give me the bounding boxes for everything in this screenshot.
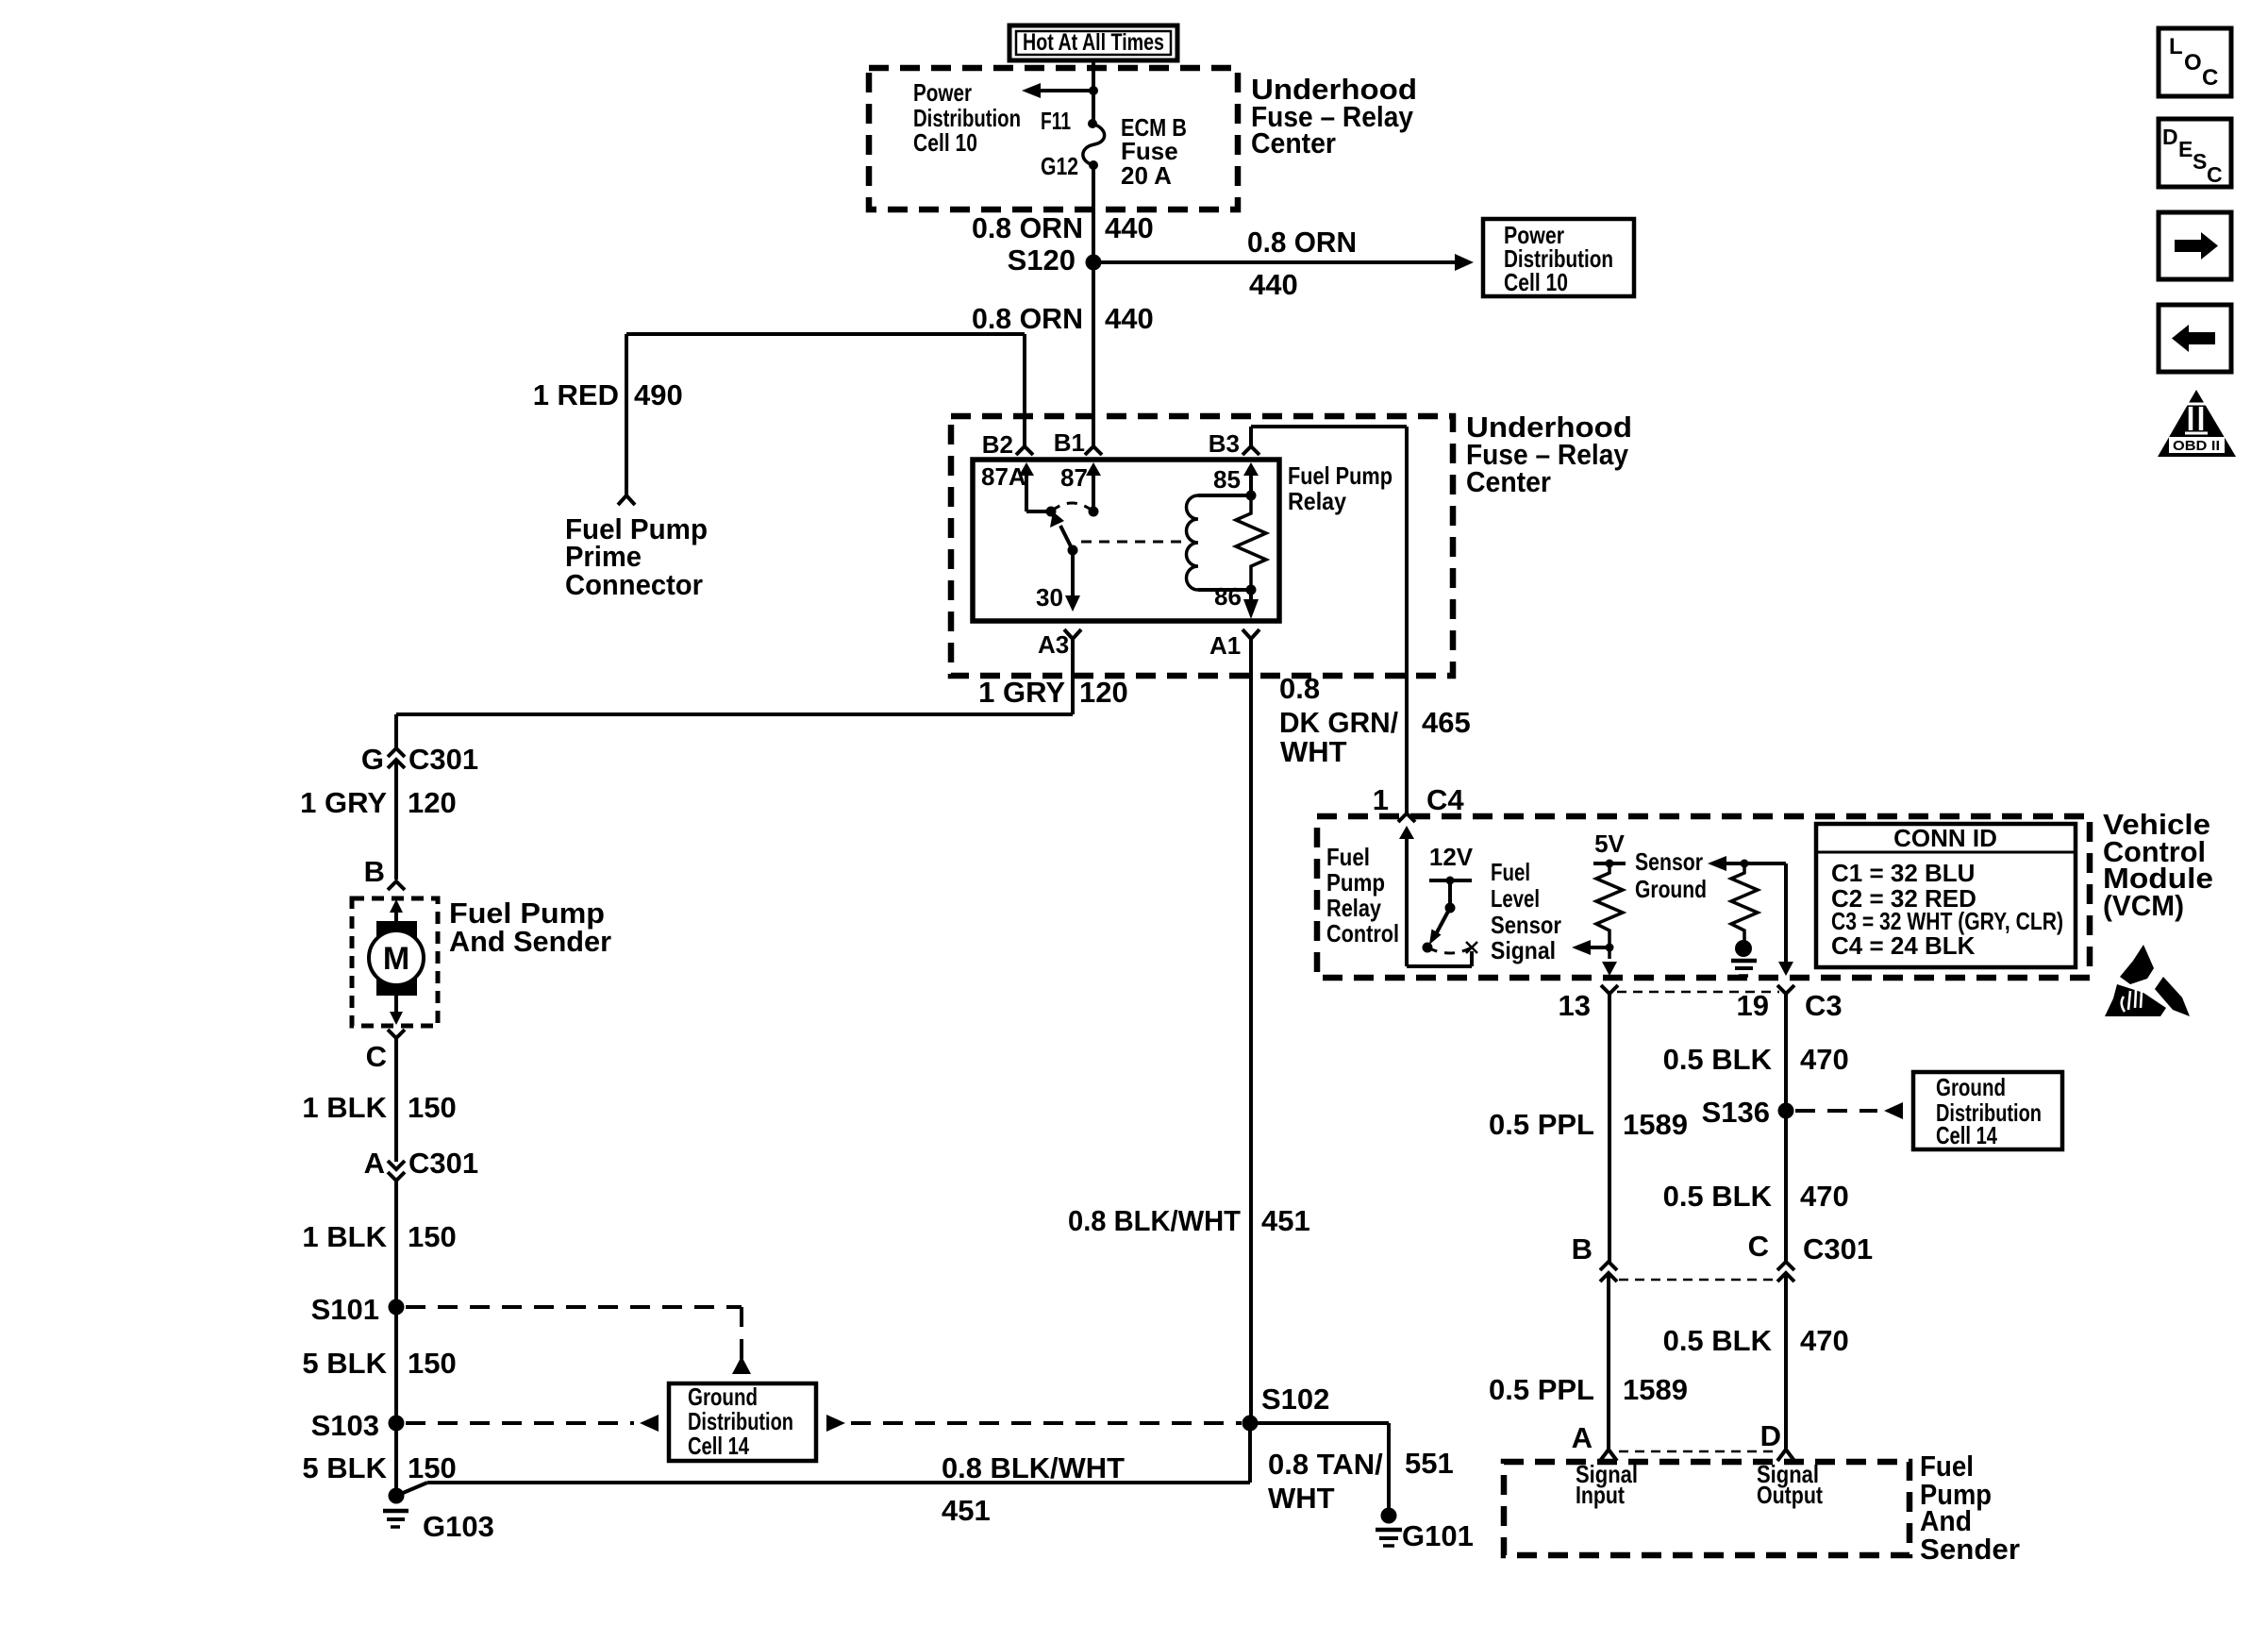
svg-text:87: 87 [1060, 463, 1088, 492]
svg-text:Cell 14: Cell 14 [688, 1432, 749, 1460]
label Sensor Ground [1635, 847, 1707, 903]
fuse F11 ECM B Fuse 20A [1083, 119, 1105, 170]
icon OBD II [2158, 390, 2236, 457]
label 0.8 TAN/WHT 551 [1268, 1447, 1454, 1515]
svg-text:DK GRN/: DK GRN/ [1279, 706, 1398, 739]
svg-text:120: 120 [408, 786, 457, 819]
svg-text:Sensor: Sensor [1635, 847, 1703, 876]
svg-text:Fuel: Fuel [1491, 858, 1530, 886]
svg-text:1589: 1589 [1623, 1373, 1688, 1406]
pin C of fuel pump [366, 1030, 405, 1073]
pin B3 [1209, 429, 1259, 458]
svg-text:G103: G103 [423, 1510, 494, 1543]
wire C4 into relay control switch [1399, 826, 1472, 966]
wire A1 down to S102 [1249, 639, 1253, 1423]
svg-text:451: 451 [942, 1494, 991, 1527]
svg-text:(VCM): (VCM) [2103, 889, 2184, 922]
splice S136 [1702, 1096, 1794, 1263]
wire arrow to Power Distribution Cell 10 (left) [1022, 83, 1093, 98]
ESD warning symbol [2105, 945, 2190, 1016]
wire S102 to G101 [1250, 1423, 1389, 1509]
svg-text:C301: C301 [409, 1147, 478, 1180]
svg-text:85: 85 [1213, 465, 1241, 494]
fuel pump relay box [973, 460, 1279, 621]
label 0.8 BLK/WHT 451 (bottom) [942, 1451, 1125, 1527]
svg-text:D: D [2162, 125, 2178, 149]
label 1 BLK 150 (lower) [302, 1220, 456, 1253]
label Fuel Level Sensor Signal [1491, 858, 1561, 964]
svg-text:440: 440 [1105, 211, 1154, 244]
Hot At All Times power feed box [1009, 25, 1177, 60]
label Fuel Pump Relay [1288, 461, 1392, 515]
pin 1 C4 of VCM [1373, 783, 1465, 822]
svg-text:1 BLK: 1 BLK [302, 1220, 387, 1253]
title Underhood Fuse-Relay Center (relay) [1466, 411, 1632, 498]
svg-text:440: 440 [1105, 302, 1154, 335]
svg-text:Relay: Relay [1288, 487, 1346, 515]
svg-text:S102: S102 [1261, 1383, 1329, 1416]
svg-text:150: 150 [408, 1220, 457, 1253]
arrow to pin 19 [1778, 962, 1793, 976]
svg-text:Fuel Pump: Fuel Pump [1288, 461, 1392, 490]
label 5 BLK 150 (upper) [302, 1347, 456, 1380]
icon LOC [2159, 28, 2231, 96]
wire fuse to S120 [1092, 165, 1095, 262]
svg-text:C4: C4 [1426, 783, 1464, 816]
svg-text:D: D [1760, 1419, 1781, 1452]
pin 13 [1559, 985, 1618, 1263]
splice S101 [311, 1293, 405, 1326]
svg-text:A3: A3 [1038, 630, 1069, 659]
svg-text:C1 = 32 BLU: C1 = 32 BLU [1831, 859, 1975, 887]
wire B3 up and over to VCM C4 [1251, 427, 1407, 813]
wire C301 G to fuel pump B [394, 762, 398, 880]
svg-text:Ground: Ground [1635, 875, 1707, 903]
svg-text:A: A [1572, 1421, 1593, 1454]
svg-text:Pump: Pump [1326, 868, 1385, 897]
label ECM B Fuse 20 A [1121, 113, 1187, 190]
icon arrow left [2159, 305, 2231, 372]
Underhood Fuse-Relay Center dashed box (top) [869, 68, 1238, 210]
pin A3 [1038, 629, 1081, 714]
svg-text:440: 440 [1249, 268, 1298, 301]
wire ORN from Hot At All Times to fuse [1092, 60, 1095, 124]
svg-text:87A: 87A [981, 462, 1026, 491]
svg-text:470: 470 [1800, 1180, 1849, 1213]
arrow out of motor [390, 996, 403, 1025]
connector C301 terminal B [1572, 1232, 1617, 1449]
svg-text:C4 = 24 BLK: C4 = 24 BLK [1831, 931, 1976, 960]
arrow to pin 13 [1602, 962, 1617, 976]
dashed link S136 to ground distribution [1795, 1102, 1903, 1119]
svg-text:S: S [2193, 149, 2207, 174]
label 0.5 PPL 1589 (upper) [1489, 1108, 1688, 1141]
svg-text:CONN ID: CONN ID [1893, 824, 1997, 852]
sensor ground rail [1708, 856, 1786, 964]
title Fuel Pump And Sender (right) [1920, 1450, 2020, 1566]
svg-text:C: C [1748, 1230, 1769, 1263]
connector C3 dashed line [1617, 991, 1779, 994]
label 0.5 BLK 470 (upper) [1663, 1043, 1849, 1076]
wire branch to fuel pump prime connector and relay B2 [626, 334, 1025, 495]
Underhood Fuse-Relay Center dashed box (relay) [951, 416, 1453, 676]
svg-text:5 BLK: 5 BLK [302, 1347, 387, 1380]
icon DESC [2159, 119, 2231, 187]
svg-text:30: 30 [1036, 583, 1063, 612]
svg-text:1: 1 [1373, 783, 1389, 816]
svg-text:0.8 ORN: 0.8 ORN [1247, 226, 1357, 259]
node on feed wire [1089, 86, 1098, 95]
svg-text:0.8 BLK/WHT: 0.8 BLK/WHT [942, 1451, 1125, 1484]
label 0.8 ORN 440 (above S120) [972, 211, 1154, 244]
svg-text:L: L [2169, 34, 2183, 59]
svg-text:Input: Input [1576, 1481, 1625, 1509]
svg-text:Control: Control [1326, 919, 1399, 947]
svg-text:C301: C301 [1803, 1232, 1873, 1266]
sender pins dashed line [1619, 1450, 1777, 1453]
ground G103 [383, 1488, 494, 1544]
svg-text:WHT: WHT [1280, 735, 1347, 768]
relay switch dashed arc [1051, 503, 1093, 511]
title Vehicle Control Module (VCM) [2103, 808, 2213, 922]
svg-text:150: 150 [408, 1451, 457, 1484]
pin A1 [1209, 629, 1259, 660]
fuel pump prime connector terminal [618, 495, 635, 505]
label 0.5 BLK 470 (middle) [1663, 1180, 1849, 1213]
svg-text:S101: S101 [311, 1293, 379, 1326]
box Ground Distribution Cell 14 (left) [669, 1383, 816, 1461]
5V rail and pull-up resistor [1593, 860, 1626, 960]
svg-text:Level: Level [1491, 884, 1540, 913]
label 1 GRY 120 (left) [300, 786, 457, 819]
arrow into motor [390, 899, 403, 923]
pin 19 C3 [1737, 985, 1843, 1111]
svg-text:Ground: Ground [1936, 1073, 2006, 1101]
svg-text:0.5 BLK: 0.5 BLK [1663, 1043, 1773, 1076]
svg-text:Sender: Sender [1920, 1533, 2020, 1566]
svg-text:E: E [2178, 137, 2193, 161]
fuel pump and sender dashed box (right) [1504, 1462, 1909, 1555]
sensor ground resistor to internal ground [1731, 863, 1758, 976]
title Underhood Fuse-Relay Center (top) [1251, 73, 1417, 159]
svg-text:B3: B3 [1209, 429, 1240, 458]
label 1 GRY 120 (A3) [978, 676, 1128, 709]
relay coil [1187, 495, 1252, 590]
svg-text:O: O [2184, 50, 2202, 75]
svg-text:Output: Output [1757, 1481, 1823, 1509]
svg-text:1 RED: 1 RED [533, 378, 619, 411]
switch dashed arc [1427, 947, 1472, 953]
svg-text:Center: Center [1466, 465, 1551, 498]
svg-text:C3: C3 [1805, 989, 1843, 1022]
pin B1 [1054, 428, 1102, 457]
svg-text:470: 470 [1800, 1324, 1849, 1357]
svg-text:Connector: Connector [565, 568, 703, 601]
wire G103 to S102 leg (451) [396, 1423, 1250, 1496]
svg-text:WHT: WHT [1268, 1482, 1335, 1515]
fuel pump motor M [369, 921, 424, 996]
svg-text:120: 120 [1079, 676, 1128, 709]
wire arrow S120 to Power Distribution Cell 10 (right) [1093, 254, 1474, 271]
wire S120 down to relay B1 [1092, 262, 1095, 446]
label 1 BLK 150 (upper) [302, 1091, 456, 1124]
svg-text:B2: B2 [982, 430, 1013, 459]
svg-text:0.8 BLK/WHT: 0.8 BLK/WHT [1068, 1204, 1241, 1237]
svg-text:5V: 5V [1594, 830, 1625, 858]
svg-text:12V: 12V [1429, 843, 1474, 871]
svg-text:0.8 TAN/: 0.8 TAN/ [1268, 1448, 1383, 1481]
label Signal Input [1576, 1460, 1638, 1509]
svg-text:1 BLK: 1 BLK [302, 1091, 387, 1124]
svg-text:C: C [2202, 65, 2218, 91]
wire A3 to C301 G [396, 714, 1073, 747]
relay terminal 86 arrow [1214, 582, 1259, 619]
ground G101 [1376, 1508, 1474, 1553]
relay control switch contact x [1466, 942, 1477, 953]
svg-text:Fuel: Fuel [1326, 843, 1370, 871]
svg-text:B: B [1572, 1232, 1593, 1266]
svg-text:A1: A1 [1209, 631, 1241, 660]
label Fuel Pump Prime Connector [565, 512, 708, 601]
svg-text:Cell 10: Cell 10 [1504, 268, 1568, 296]
svg-text:1589: 1589 [1623, 1108, 1688, 1141]
relay switch arm [1050, 511, 1078, 556]
svg-text:1 GRY: 1 GRY [978, 676, 1065, 709]
label 0.8 ORN 440 (below S120) [972, 302, 1154, 335]
connector C301 terminal C [1748, 1230, 1874, 1449]
connector C301 terminal A [364, 1147, 479, 1181]
VCM dashed box [1317, 816, 2090, 978]
svg-text:B1: B1 [1054, 428, 1085, 457]
svg-text:OBD II: OBD II [2173, 438, 2220, 454]
relay terminal 87A arrow [981, 462, 1057, 517]
svg-text:M: M [383, 941, 409, 977]
svg-text:S120: S120 [1008, 243, 1076, 277]
svg-text:F11: F11 [1041, 107, 1071, 135]
pin A of fuel pump sender [1572, 1421, 1617, 1461]
dashed link ground distribution to S102 [826, 1415, 1242, 1432]
label 0.8 ORN 440 (on arrow) [1247, 226, 1357, 301]
label 1 RED 490 [533, 378, 683, 411]
relay coil resistor [1236, 495, 1266, 590]
svg-text:Power: Power [913, 78, 972, 107]
label Signal Output [1757, 1460, 1823, 1509]
relay terminal 87 arrow [1060, 462, 1101, 517]
relay switch to pin 30 [1036, 550, 1080, 612]
svg-text:Cell 14: Cell 14 [1936, 1121, 1997, 1149]
pin B2 [982, 430, 1033, 459]
CONN ID table [1816, 824, 2076, 967]
svg-text:150: 150 [408, 1347, 457, 1380]
svg-text:Relay: Relay [1326, 894, 1381, 922]
icon arrow right [2159, 212, 2231, 279]
dashed link S101 to ground distribution [406, 1307, 751, 1374]
svg-text:1 GRY: 1 GRY [300, 786, 387, 819]
relay terminal 85 arrow [1213, 462, 1259, 501]
svg-text:490: 490 [634, 378, 683, 411]
svg-text:G12: G12 [1041, 152, 1078, 180]
svg-text:0.8 ORN: 0.8 ORN [972, 211, 1083, 244]
wire C down to C301 A [394, 1038, 398, 1162]
svg-text:C301: C301 [409, 743, 478, 776]
svg-text:B: B [364, 855, 385, 888]
fuel pump and sender dashed box [352, 898, 438, 1026]
svg-text:Signal: Signal [1491, 936, 1556, 964]
svg-text:G: G [361, 743, 384, 776]
pin B of fuel pump [364, 855, 405, 890]
svg-text:465: 465 [1422, 706, 1471, 739]
svg-text:20 A: 20 A [1121, 161, 1172, 190]
svg-text:5 BLK: 5 BLK [302, 1451, 387, 1484]
svg-text:86: 86 [1214, 582, 1242, 611]
svg-text:G101: G101 [1402, 1519, 1474, 1552]
label 0.8 DK GRN/WHT 465 [1279, 672, 1471, 768]
svg-text:470: 470 [1800, 1043, 1849, 1076]
label Fuel Pump And Sender (left) [449, 897, 611, 958]
12V rail and switch [1423, 877, 1473, 953]
svg-text:0.8 ORN: 0.8 ORN [972, 302, 1083, 335]
connector C301 terminal G [361, 743, 478, 776]
dashed link S103 to ground distribution [406, 1415, 659, 1432]
splice S120 [1008, 243, 1102, 277]
svg-text:A: A [364, 1147, 385, 1180]
label Fuel Pump Relay Control [1326, 843, 1399, 947]
svg-text:C: C [366, 1040, 387, 1073]
splice S103 [311, 1409, 405, 1442]
svg-text:0.5 BLK: 0.5 BLK [1663, 1180, 1773, 1213]
relay coil control dashed link [1081, 541, 1181, 544]
svg-text:0.5 PPL: 0.5 PPL [1489, 1108, 1594, 1141]
wire C301 A down to G103 [394, 1182, 398, 1496]
svg-text:451: 451 [1261, 1204, 1310, 1237]
svg-text:C: C [2207, 162, 2223, 187]
svg-text:Cell 10: Cell 10 [913, 128, 977, 157]
svg-text:13: 13 [1559, 989, 1591, 1022]
label 0.5 PPL 1589 (lower) [1489, 1373, 1688, 1406]
svg-text:S103: S103 [311, 1409, 379, 1442]
svg-text:Center: Center [1251, 126, 1336, 159]
svg-text:150: 150 [408, 1091, 457, 1124]
label Power Distribution Cell 10 (in fuse box) [913, 78, 1021, 157]
svg-text:And Sender: And Sender [449, 925, 611, 958]
svg-text:0.8: 0.8 [1279, 672, 1320, 705]
box Power Distribution Cell 10 (right) [1483, 219, 1634, 296]
svg-text:0.5 BLK: 0.5 BLK [1663, 1324, 1773, 1357]
svg-text:0.5 PPL: 0.5 PPL [1489, 1373, 1594, 1406]
svg-text:19: 19 [1737, 989, 1769, 1022]
splice S102 [1242, 1383, 1330, 1432]
svg-text:Sensor: Sensor [1491, 911, 1561, 939]
svg-text:Hot At All Times: Hot At All Times [1023, 29, 1164, 56]
pin D of fuel pump sender [1760, 1419, 1794, 1461]
box Ground Distribution Cell 14 (right) [1913, 1072, 2062, 1149]
branch arrow fuel level sensor signal [1572, 940, 1614, 955]
svg-text:S136: S136 [1702, 1096, 1770, 1129]
label 5 BLK 150 (lower) [302, 1451, 456, 1484]
label 0.5 BLK 470 (lower) [1663, 1324, 1849, 1357]
svg-text:551: 551 [1405, 1447, 1454, 1480]
connector C301 dashed line (right) [1619, 1279, 1777, 1282]
label 0.8 BLK/WHT 451 [1068, 1204, 1310, 1237]
